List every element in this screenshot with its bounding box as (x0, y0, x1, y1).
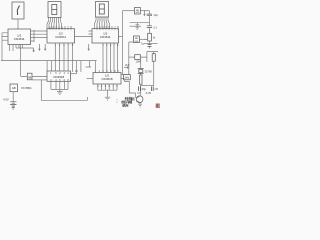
IC U5 CD4518 (93, 73, 121, 85)
rail lower right (144, 43, 158, 45)
IC U2 top pin ticks (50, 28, 71, 30)
svg-text:SB: SB (28, 75, 32, 79)
display DS3 (96, 2, 109, 18)
cap C3 (148, 45, 152, 47)
bus drops right of U4 (73, 61, 81, 74)
wire SB (21, 76, 47, 78)
display DS1 (12, 2, 24, 19)
wire SB lower (32, 79, 47, 81)
IC U4 right pin (71, 73, 77, 75)
wire 555A right (140, 10, 149, 12)
svg-text:30p: 30p (142, 87, 147, 91)
box B3 (124, 75, 131, 80)
IC U3 bottom pins (103, 43, 118, 73)
wire (153, 61, 155, 85)
cap C2 (147, 26, 152, 28)
arrow a1 (38, 44, 40, 49)
arrow a3 (88, 44, 90, 49)
display DS2 pins (47, 18, 62, 29)
wire right net (147, 52, 158, 63)
ground 555B (136, 26, 140, 29)
ground 555A (136, 23, 140, 26)
ground U4 (57, 92, 63, 95)
svg-text:图: 图 (156, 103, 161, 110)
cap C4 (139, 86, 141, 91)
display DS2 (48, 2, 61, 18)
wire gather U4 (51, 89, 68, 91)
wire down rail (41, 80, 87, 100)
svg-text:XX 8801: XX 8801 (21, 86, 32, 90)
resistor R2 (135, 55, 141, 60)
junction (144, 39, 145, 40)
wire vertical junction (33, 30, 35, 42)
svg-text:32768: 32768 (145, 70, 153, 74)
svg-text:1Hz: 1Hz (125, 77, 130, 80)
right column vertical (148, 11, 150, 49)
svg-text:CD4511: CD4511 (14, 37, 25, 41)
svg-text:2Hz: 2Hz (125, 63, 130, 67)
IC U1 bottom pins (10, 45, 23, 52)
svg-text:GB: GB (12, 86, 16, 90)
ground U5 (105, 97, 111, 100)
arrow a2 (44, 44, 46, 49)
resistor R4 (152, 54, 155, 62)
bus wire (1, 60, 97, 62)
svg-text:CD4511: CD4511 (100, 35, 111, 39)
wire 555B left down (129, 42, 134, 75)
rail 555B (130, 25, 142, 27)
battery box GB (10, 84, 18, 92)
wire hook IC5 left (86, 61, 92, 67)
crystal B1 (138, 68, 144, 73)
wire B3 out (125, 80, 136, 98)
svg-text:CD4511: CD4511 (55, 35, 66, 39)
wire R2 (129, 56, 147, 58)
wire DS1 to U1 (17, 19, 19, 29)
svg-text:10M: 10M (136, 60, 141, 64)
caption (121, 96, 135, 107)
drop (94, 61, 96, 73)
svg-text:5-35: 5-35 (146, 91, 152, 95)
wire gather U5 (98, 90, 117, 97)
digit 1 segment (17, 6, 19, 16)
IC U3 right pin (119, 35, 123, 37)
wire GB down (12, 92, 14, 102)
wire to switch SB (20, 45, 22, 77)
wire gather to arrow (16, 48, 34, 52)
junction (144, 10, 145, 11)
IC U1 right pins (31, 31, 35, 41)
svg-text:C7: C7 (137, 91, 141, 95)
svg-text:CD4518: CD4518 (53, 75, 64, 79)
IC U4 bottom pins (51, 81, 68, 89)
IC U1 left pins (2, 33, 8, 40)
wire vertical net right (122, 11, 124, 75)
bus drops to U4 (47, 61, 68, 71)
battery cells (10, 102, 16, 106)
rail 555A (130, 22, 150, 24)
wires U1 to U2 (34, 31, 47, 38)
small labels (125, 13, 158, 95)
wire 555B right (139, 38, 147, 40)
IC U1 driver (8, 29, 31, 45)
resistor R3 (140, 75, 142, 84)
IC U3 top pin ticks (97, 28, 118, 30)
arrow out (124, 67, 128, 69)
wire 555A left (123, 10, 135, 12)
IC U2 right pin (75, 35, 93, 37)
wire left bus down (1, 33, 3, 61)
IC U5 right pins (121, 75, 127, 79)
wire R3 down (140, 84, 142, 96)
IC U5 left pin (87, 77, 94, 79)
switch SB (27, 73, 32, 80)
digit 8 (99, 4, 104, 14)
cap C1 (147, 14, 152, 16)
rail bottom right (141, 85, 154, 87)
wire below battery (12, 106, 14, 108)
svg-text:C8: C8 (155, 87, 159, 91)
IC U5 bottom pins (98, 84, 117, 90)
svg-text:10μ: 10μ (153, 13, 158, 17)
pin number rows (49, 25, 120, 88)
ground battery (11, 108, 15, 109)
ground Q1 (138, 103, 142, 107)
svg-text:4.5V: 4.5V (3, 97, 9, 101)
cap C5 (151, 86, 153, 91)
IC U3 left pins (89, 31, 93, 34)
display DS3 pins (95, 17, 110, 29)
wire crystal (140, 59, 142, 75)
IC U3 CD4511 (92, 29, 119, 43)
IC U2 CD4511 (47, 29, 75, 43)
digit 8 (52, 5, 57, 15)
arrow down (32, 50, 34, 52)
resistor R1 (148, 33, 152, 41)
IC 555 A (135, 8, 141, 15)
svg-text:CD4518: CD4518 (101, 77, 112, 81)
IC labels (12, 10, 140, 90)
IC U4 CD4518 (47, 71, 71, 81)
IC U2 bottom pins (55, 43, 72, 61)
svg-text:0.1: 0.1 (153, 26, 157, 30)
diode stub (143, 11, 145, 14)
svg-text:使用: 使用 (121, 103, 129, 107)
transistor Q1 (136, 96, 143, 103)
IC 555 B (134, 36, 140, 43)
